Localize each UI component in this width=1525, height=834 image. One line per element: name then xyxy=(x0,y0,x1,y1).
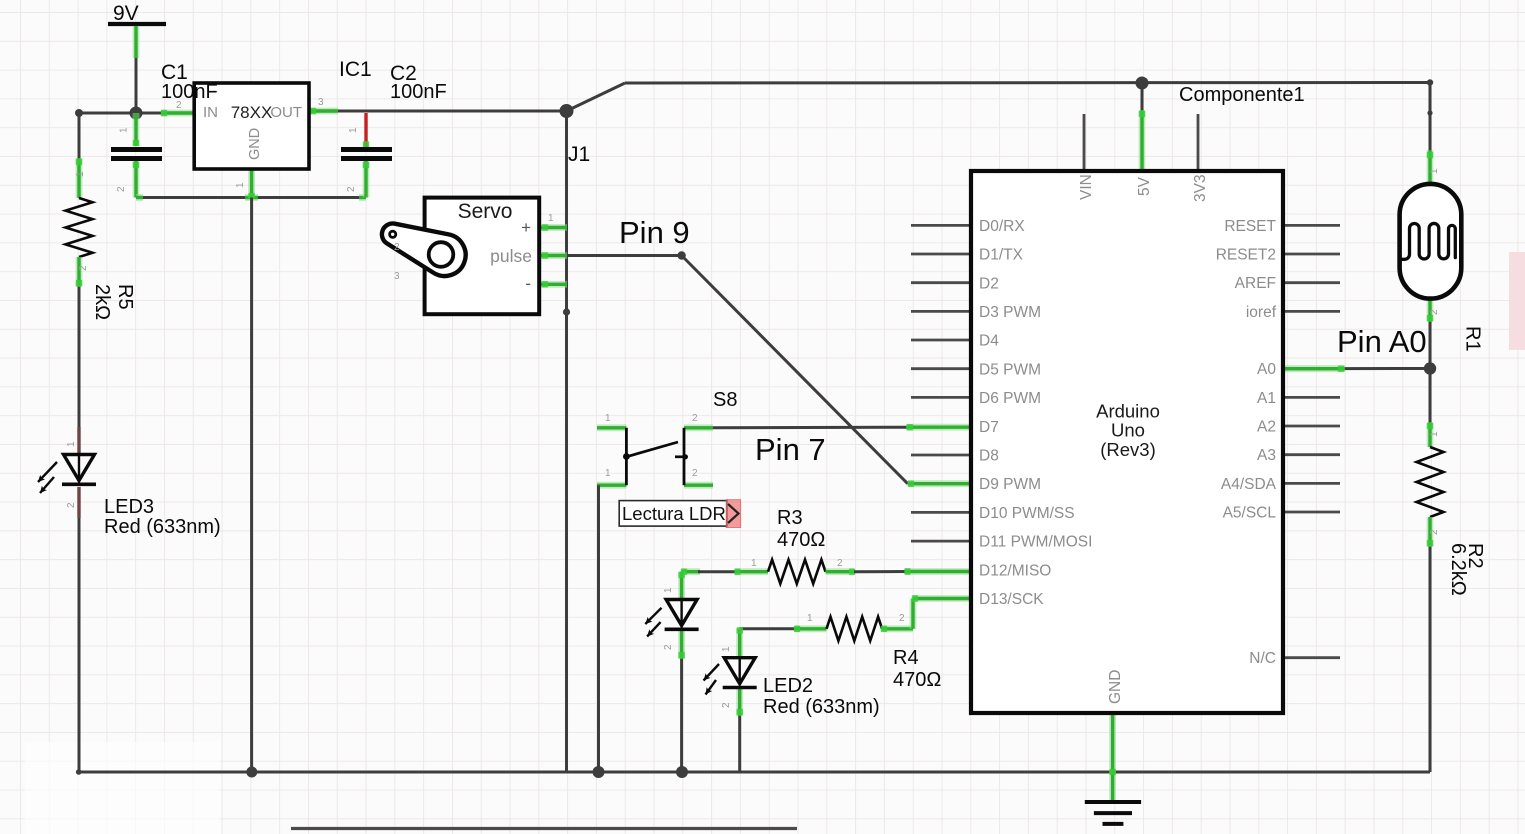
svg-text:2: 2 xyxy=(346,186,357,192)
svg-text:R5: R5 xyxy=(114,284,136,310)
svg-text:1: 1 xyxy=(75,171,86,177)
svg-text:Servo: Servo xyxy=(458,200,513,223)
svg-text:RESET: RESET xyxy=(1224,218,1276,235)
svg-text:100nF: 100nF xyxy=(161,81,218,103)
svg-text:N/C: N/C xyxy=(1249,650,1276,667)
svg-text:1: 1 xyxy=(548,213,554,224)
svg-text:2: 2 xyxy=(663,644,674,650)
svg-text:LED3: LED3 xyxy=(104,496,154,518)
svg-text:D13/SCK: D13/SCK xyxy=(979,591,1044,608)
svg-text:R3: R3 xyxy=(777,507,803,529)
svg-text:GND: GND xyxy=(247,128,263,160)
svg-text:Componente1: Componente1 xyxy=(1179,84,1305,106)
svg-text:D0/RX: D0/RX xyxy=(979,218,1025,235)
svg-text:Pin 7: Pin 7 xyxy=(755,432,826,467)
svg-text:GND: GND xyxy=(1107,670,1124,704)
svg-text:+: + xyxy=(521,218,531,237)
svg-text:D3 PWM: D3 PWM xyxy=(979,304,1041,321)
svg-text:D7: D7 xyxy=(979,419,999,436)
svg-text:2: 2 xyxy=(1429,309,1440,315)
svg-text:D6 PWM: D6 PWM xyxy=(979,390,1041,407)
svg-text:1: 1 xyxy=(1429,431,1440,437)
svg-text:A1: A1 xyxy=(1257,390,1276,407)
svg-text:A5/SCL: A5/SCL xyxy=(1223,505,1277,522)
svg-text:Arduino: Arduino xyxy=(1096,401,1160,422)
svg-text:3: 3 xyxy=(394,271,400,282)
svg-text:2: 2 xyxy=(721,702,732,708)
svg-text:pulse: pulse xyxy=(490,246,532,266)
svg-text:Pin A0: Pin A0 xyxy=(1337,324,1427,359)
svg-text:1: 1 xyxy=(807,613,813,624)
svg-text:3V3: 3V3 xyxy=(1192,174,1209,202)
svg-text:ioref: ioref xyxy=(1246,304,1277,321)
svg-text:5V: 5V xyxy=(1136,176,1153,196)
svg-text:Lectura LDR: Lectura LDR xyxy=(622,503,726,524)
svg-text:2kΩ: 2kΩ xyxy=(91,284,113,320)
svg-text:IN: IN xyxy=(203,104,218,121)
svg-text:-: - xyxy=(525,274,531,293)
svg-text:2: 2 xyxy=(692,468,698,479)
svg-text:D12/MISO: D12/MISO xyxy=(979,562,1051,579)
svg-text:100nF: 100nF xyxy=(390,81,447,103)
svg-text:1: 1 xyxy=(605,413,611,424)
svg-text:Red (633nm): Red (633nm) xyxy=(763,696,880,718)
svg-text:D2: D2 xyxy=(979,275,999,292)
svg-text:R4: R4 xyxy=(893,647,919,669)
svg-text:1: 1 xyxy=(1429,168,1440,174)
svg-text:(Rev3): (Rev3) xyxy=(1100,439,1156,460)
svg-text:1: 1 xyxy=(348,127,359,133)
svg-text:1: 1 xyxy=(605,468,611,479)
svg-text:2: 2 xyxy=(394,242,400,253)
svg-text:D5 PWM: D5 PWM xyxy=(979,361,1041,378)
svg-text:D11 PWM/MOSI: D11 PWM/MOSI xyxy=(979,534,1092,551)
svg-text:D4: D4 xyxy=(979,333,999,350)
svg-text:A2: A2 xyxy=(1257,419,1276,436)
svg-text:1: 1 xyxy=(751,558,757,569)
svg-text:D9 PWM: D9 PWM xyxy=(979,476,1041,493)
svg-text:VIN: VIN xyxy=(1078,174,1095,200)
svg-text:2: 2 xyxy=(116,186,127,192)
svg-text:S8: S8 xyxy=(713,389,737,411)
svg-text:Red (633nm): Red (633nm) xyxy=(104,516,221,538)
svg-text:A4/SDA: A4/SDA xyxy=(1221,476,1277,493)
svg-text:78XX: 78XX xyxy=(231,103,273,122)
svg-text:1: 1 xyxy=(721,646,732,652)
svg-text:OUT: OUT xyxy=(270,104,302,121)
svg-text:A0: A0 xyxy=(1257,361,1276,378)
svg-text:A3: A3 xyxy=(1257,447,1276,464)
svg-text:1: 1 xyxy=(66,441,77,447)
svg-text:6.2kΩ: 6.2kΩ xyxy=(1447,543,1469,596)
svg-text:RESET2: RESET2 xyxy=(1216,247,1276,264)
svg-text:2: 2 xyxy=(692,413,698,424)
svg-text:AREF: AREF xyxy=(1235,275,1276,292)
svg-text:1: 1 xyxy=(119,127,130,133)
svg-text:2: 2 xyxy=(837,558,843,569)
svg-text:3: 3 xyxy=(318,97,324,108)
svg-text:IC1: IC1 xyxy=(339,58,372,81)
svg-text:D8: D8 xyxy=(979,448,999,465)
svg-text:2: 2 xyxy=(176,100,182,111)
svg-text:2: 2 xyxy=(78,265,89,271)
svg-text:J1: J1 xyxy=(568,143,590,166)
svg-text:2: 2 xyxy=(899,613,905,624)
svg-text:9V: 9V xyxy=(113,2,139,25)
svg-text:LED2: LED2 xyxy=(763,675,813,697)
svg-text:Uno: Uno xyxy=(1111,420,1145,441)
svg-text:470Ω: 470Ω xyxy=(893,669,941,691)
svg-text:470Ω: 470Ω xyxy=(777,529,825,551)
svg-text:1: 1 xyxy=(663,587,674,593)
svg-text:D10 PWM/SS: D10 PWM/SS xyxy=(979,505,1075,522)
svg-text:Pin 9: Pin 9 xyxy=(619,215,690,250)
svg-text:2: 2 xyxy=(1429,529,1440,535)
svg-text:R1: R1 xyxy=(1462,326,1484,352)
svg-text:1: 1 xyxy=(235,182,246,188)
svg-text:D1/TX: D1/TX xyxy=(979,247,1024,264)
svg-text:2: 2 xyxy=(66,502,77,508)
